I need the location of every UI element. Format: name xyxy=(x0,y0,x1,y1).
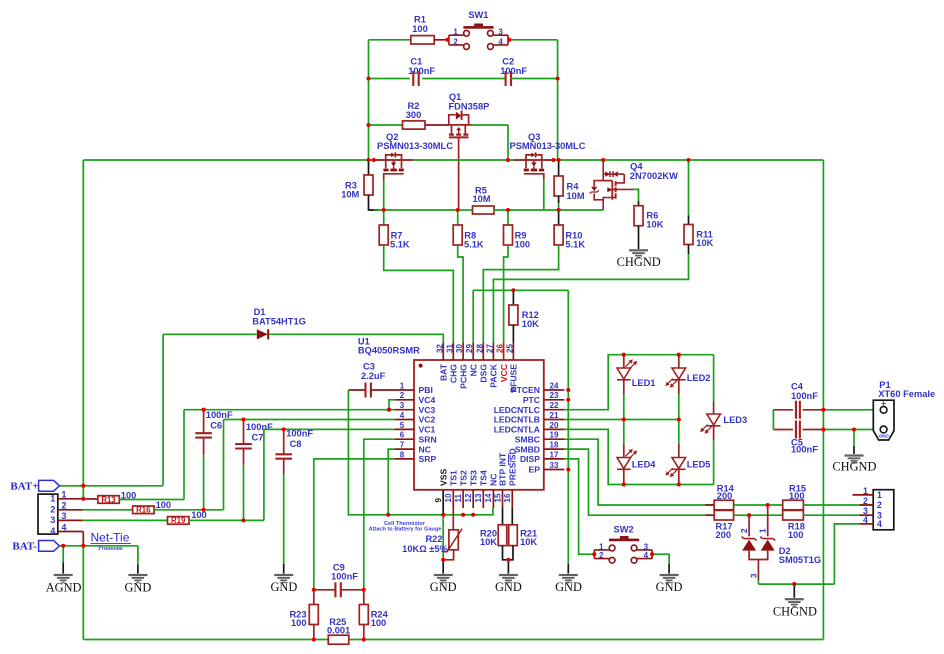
svg-text:32: 32 xyxy=(435,344,444,353)
junction pin23 net xyxy=(566,398,570,402)
svg-text:11: 11 xyxy=(454,493,463,502)
resistor R3 xyxy=(364,175,373,195)
pin 29 stub U1 top xyxy=(472,343,474,360)
junction row Q4 xyxy=(601,158,605,162)
wire SW2 to GND xyxy=(652,554,669,564)
svg-text:SMBD: SMBD xyxy=(515,444,540,454)
P1 gnd pad xyxy=(880,426,887,433)
svg-text:SW2: SW2 xyxy=(614,524,634,534)
svg-text:33: 33 xyxy=(550,461,559,470)
svg-text:XT60 Female: XT60 Female xyxy=(878,389,935,399)
svg-text:18: 18 xyxy=(550,441,559,450)
resistor R15 xyxy=(783,500,804,510)
wire R24 bottom xyxy=(363,625,365,640)
svg-text:25: 25 xyxy=(505,344,514,353)
junction row C2 branch xyxy=(557,158,561,162)
wire R10 top xyxy=(558,210,560,225)
pin 20 stub U1 xyxy=(544,428,565,430)
junction C9 right xyxy=(362,588,366,592)
wire Q4 source to row xyxy=(602,209,604,210)
resistor R5 xyxy=(473,206,495,214)
svg-text:200: 200 xyxy=(716,530,732,540)
wire R7 top xyxy=(383,210,385,225)
ground CHGND P1 xyxy=(845,454,864,463)
svg-text:2.2uF: 2.2uF xyxy=(361,371,386,381)
wire R23 bottom xyxy=(313,625,315,640)
pin 28 stub U1 top xyxy=(482,343,484,360)
wire LED4 top xyxy=(623,420,625,445)
wire BAT- row xyxy=(60,545,138,547)
junction TS3 row xyxy=(471,513,475,517)
resistor R2 xyxy=(403,121,426,129)
junction SW2 left xyxy=(592,552,596,556)
diode D1 xyxy=(257,329,268,339)
LED LED5 xyxy=(672,458,686,470)
svg-text:100nF: 100nF xyxy=(331,572,358,582)
svg-text:VC1: VC1 xyxy=(419,425,436,435)
wire LED2 to mid xyxy=(678,394,680,420)
wire C6 bottom lead xyxy=(203,438,205,455)
resistor R6 xyxy=(634,206,643,226)
svg-text:3: 3 xyxy=(400,401,405,410)
wire R14 to R15 xyxy=(734,504,783,506)
svg-text:10KΩ ±5%: 10KΩ ±5% xyxy=(402,544,448,554)
svg-text:1: 1 xyxy=(599,542,604,551)
svg-text:1: 1 xyxy=(863,486,868,496)
op-amp U1 body xyxy=(414,360,544,490)
junction SW2 right xyxy=(650,552,654,556)
capacitor C1 xyxy=(413,71,418,86)
svg-text:14: 14 xyxy=(484,493,493,502)
wire C8 to GND xyxy=(283,474,285,564)
junction R23 rail xyxy=(312,637,316,641)
svg-text:100nF: 100nF xyxy=(791,445,818,455)
wire BATP riser xyxy=(162,334,164,485)
junction pin33 net xyxy=(566,467,570,471)
junction LED2 top xyxy=(677,353,681,357)
svg-text:100nF: 100nF xyxy=(500,66,527,76)
svg-text:3: 3 xyxy=(749,573,758,578)
svg-text:VCC: VCC xyxy=(499,364,509,382)
resistor R19 xyxy=(168,517,190,525)
pin 2 stub U1 xyxy=(395,399,414,401)
svg-text:SW1: SW1 xyxy=(468,10,488,20)
svg-text:Net-Tie: Net-Tie xyxy=(91,531,130,545)
junction C1 row left xyxy=(366,76,370,80)
svg-text:GND: GND xyxy=(430,580,457,594)
svg-text:VC4: VC4 xyxy=(419,395,436,405)
wire R22 GND black xyxy=(442,560,444,574)
flag BAT- xyxy=(39,541,60,552)
wire R4 bottom green xyxy=(558,203,560,210)
wire BTP to R20 xyxy=(502,508,504,525)
wire Q2 pins row xyxy=(375,159,414,161)
U1 pin1 mark xyxy=(419,364,423,368)
capacitor C5 xyxy=(796,421,800,439)
wire R7 to pin31 xyxy=(384,245,454,343)
svg-text:4: 4 xyxy=(62,522,67,532)
junction LED mid left xyxy=(622,417,626,421)
wire BATminus left vertical xyxy=(82,546,84,640)
svg-text:AGND: AGND xyxy=(46,580,82,594)
junction NC7 on VSS row xyxy=(386,513,390,517)
pin 22 stub U1 xyxy=(544,409,565,411)
junction pin24 net xyxy=(566,388,570,392)
resistor R25 shunt xyxy=(328,635,349,644)
junction SW1 right xyxy=(507,38,511,42)
pin 2 stub P2 xyxy=(860,504,874,506)
svg-text:R22: R22 xyxy=(425,534,442,544)
wire row210 a xyxy=(384,209,458,211)
svg-text:TS1: TS1 xyxy=(449,470,459,486)
capacitor C7 xyxy=(235,444,252,448)
wire LED3 anode xyxy=(713,402,715,414)
junction C6 top xyxy=(202,408,206,412)
wire C3 down to VSS row xyxy=(348,390,388,515)
wire SMBD to R17 xyxy=(564,449,714,515)
wire LEDC xyxy=(564,355,713,410)
wire R12 to pin25 xyxy=(512,325,514,343)
wire LED5 top xyxy=(678,420,680,445)
wire C9 left lead xyxy=(314,589,335,591)
wire R8 top xyxy=(457,210,459,225)
svg-text:2: 2 xyxy=(863,496,868,506)
svg-text:28: 28 xyxy=(475,344,484,353)
wire D1 cathode to pin32 xyxy=(270,334,444,342)
svg-text:10K: 10K xyxy=(480,537,497,547)
junction LED4 bot xyxy=(622,482,626,486)
svg-text:LED4: LED4 xyxy=(632,460,657,470)
svg-text:TS2: TS2 xyxy=(458,470,468,486)
wire EP to GND black xyxy=(567,564,569,574)
resistor R21 xyxy=(509,525,518,546)
wire D2 anode U xyxy=(749,551,768,560)
svg-text:BQ4050RSMR: BQ4050RSMR xyxy=(358,345,420,355)
connector battery J1 body xyxy=(38,494,58,534)
svg-text:LED1: LED1 xyxy=(632,378,656,388)
transistor Q2 xyxy=(383,152,403,179)
resistor R9 xyxy=(504,225,513,245)
pin 3 stub J1 xyxy=(58,519,84,521)
wire R11 top black xyxy=(688,216,690,225)
wire Q1 to Q3 row xyxy=(507,125,509,160)
wire R16 right xyxy=(154,509,223,511)
resistor R18 xyxy=(783,510,804,520)
svg-text:VSS: VSS xyxy=(438,469,448,486)
wire bottom rail xyxy=(83,639,823,641)
ground GND NetTie xyxy=(128,574,147,583)
svg-text:24: 24 xyxy=(550,381,559,390)
wire main left vertical xyxy=(368,40,370,160)
svg-text:2: 2 xyxy=(877,500,882,510)
ground GND EP xyxy=(559,574,578,583)
svg-text:SRP: SRP xyxy=(419,454,437,464)
svg-text:1: 1 xyxy=(50,493,55,503)
svg-text:100: 100 xyxy=(789,491,805,501)
svg-text:NC: NC xyxy=(419,444,431,454)
junction D2 pin1 xyxy=(766,503,770,507)
pin 30 stub U1 top xyxy=(462,343,464,360)
wire D2 pin1 lead xyxy=(767,505,769,536)
svg-text:17: 17 xyxy=(550,450,559,459)
svg-text:SRN: SRN xyxy=(419,434,437,444)
resistor R10 xyxy=(554,225,563,245)
pin 25 stub U1 top xyxy=(512,343,514,360)
wire R1 to SW1 xyxy=(434,39,447,41)
wire R8 to pin30 xyxy=(458,245,463,343)
svg-text:22: 22 xyxy=(550,401,559,410)
junction P1 gnd xyxy=(852,427,856,431)
junction C4 pack xyxy=(821,408,825,412)
svg-text:GND: GND xyxy=(270,580,297,594)
svg-text:5.1K: 5.1K xyxy=(464,240,484,250)
wire R16 riser xyxy=(223,420,225,510)
resistor R24 xyxy=(359,605,368,625)
pin 21 stub U1 xyxy=(544,419,565,421)
lead R17 left xyxy=(706,514,715,516)
svg-text:PTC: PTC xyxy=(523,395,540,405)
svg-text:C1: C1 xyxy=(410,56,422,66)
junction LED5 bot xyxy=(677,482,681,486)
junction node R7 xyxy=(382,208,386,212)
wire NetTie GND xyxy=(137,546,139,565)
pin 1 stub J1 xyxy=(58,498,84,500)
wire LED4 anode xyxy=(623,444,625,458)
pin 5 stub U1 xyxy=(395,428,414,430)
capacitor C8 xyxy=(275,454,292,458)
junction row R11 xyxy=(686,158,690,162)
wire C7 bottom lead xyxy=(243,449,245,465)
svg-text:2: 2 xyxy=(400,391,405,400)
wire D1 anode row xyxy=(163,333,257,335)
wire LED1 anode xyxy=(623,355,625,368)
svg-text:BAT54HT1G: BAT54HT1G xyxy=(252,316,306,326)
pin 23 stub U1 xyxy=(544,399,565,401)
switch SW1 xyxy=(449,24,508,50)
svg-text:5: 5 xyxy=(400,421,405,430)
wire rail to pin1 xyxy=(82,486,84,499)
wire SRN xyxy=(364,439,395,590)
wire C9 right lead xyxy=(341,589,364,591)
svg-text:4: 4 xyxy=(644,551,649,560)
wire LEDB xyxy=(564,419,678,421)
wire VC1 row xyxy=(264,428,395,430)
junction SW1 left xyxy=(445,38,449,42)
wire pin3 to R19 xyxy=(83,519,167,521)
svg-text:15: 15 xyxy=(493,493,502,502)
wire D2 pin2 lead xyxy=(748,515,750,536)
LED LED2 xyxy=(672,368,686,380)
svg-text:2: 2 xyxy=(740,528,749,533)
wire R6 top black xyxy=(638,201,640,206)
svg-text:GND: GND xyxy=(878,433,889,438)
svg-text:1: 1 xyxy=(400,381,405,390)
wire R23 top xyxy=(313,590,315,605)
resistor R20 xyxy=(498,525,507,546)
svg-text:NC: NC xyxy=(468,364,478,376)
svg-text:VC2: VC2 xyxy=(419,415,436,425)
pin 1 stub U1 xyxy=(395,389,414,391)
wire R19 riser xyxy=(263,429,265,520)
flag BAT+ xyxy=(39,480,60,491)
svg-text:7: 7 xyxy=(400,441,405,450)
svg-text:GND: GND xyxy=(656,580,683,594)
svg-text:LEDCNTLB: LEDCNTLB xyxy=(494,415,540,425)
junction BATP rail xyxy=(81,484,85,488)
wire R4 bottom xyxy=(558,196,560,203)
wire C8 bottom lead xyxy=(283,459,285,475)
svg-text:5.1K: 5.1K xyxy=(565,240,585,250)
svg-text:C2: C2 xyxy=(502,56,514,66)
wire pin29 drop xyxy=(472,290,474,342)
wire R3 bottom xyxy=(369,195,380,210)
svg-text:4: 4 xyxy=(863,515,868,525)
svg-text:PACK: PACK xyxy=(489,363,499,388)
ground CHGND D2 xyxy=(785,598,804,607)
wire LED2 anode xyxy=(678,355,680,368)
wire R9 to pin26 xyxy=(504,245,508,343)
svg-text:BAT: BAT xyxy=(439,363,449,381)
wire BAT+ to riser xyxy=(60,485,164,487)
svg-text:4: 4 xyxy=(50,526,55,536)
wire AGND xyxy=(62,546,64,563)
capacitor C6 xyxy=(195,433,212,437)
svg-text:2: 2 xyxy=(50,504,55,514)
svg-text:FDN358P: FDN358P xyxy=(449,101,490,111)
ground GND R20R21 xyxy=(499,574,518,583)
pin 33 stub U1 xyxy=(544,469,565,471)
svg-text:GND: GND xyxy=(495,580,522,594)
svg-text:BAT+: BAT+ xyxy=(10,481,38,493)
svg-text:LED3: LED3 xyxy=(723,415,747,425)
ground GND R22 xyxy=(434,574,453,583)
lead R13 left xyxy=(83,498,98,500)
wire LED3 to bottom xyxy=(713,440,715,485)
transistor Q1 xyxy=(446,111,472,138)
wire R21 bottom xyxy=(508,546,513,560)
svg-text:LEDCNTLA: LEDCNTLA xyxy=(494,425,540,435)
junction R12 top xyxy=(511,288,515,292)
svg-text:23: 23 xyxy=(550,391,559,400)
ground GND C8 xyxy=(274,574,293,583)
junction node R8 xyxy=(456,208,460,212)
pin 16 stub U1 bottom xyxy=(511,490,513,508)
wire Q2-Q3 row xyxy=(413,159,514,161)
wire C6 top lead xyxy=(203,410,205,434)
svg-text:100: 100 xyxy=(371,618,387,628)
wire C2 to right vertical xyxy=(511,78,558,80)
wire Q4 drain xyxy=(633,189,639,201)
svg-text:1: 1 xyxy=(877,490,882,500)
svg-text:26: 26 xyxy=(496,344,505,353)
pin 3 stub U1 xyxy=(395,409,414,411)
junction BAT- rail xyxy=(81,544,85,548)
svg-text:4: 4 xyxy=(498,37,503,46)
wire R12 top xyxy=(512,290,514,305)
pin 13 stub U1 bottom xyxy=(482,490,484,508)
wire VSS to GND xyxy=(442,515,444,560)
junction C7 top xyxy=(241,417,245,421)
resistor R4 xyxy=(554,176,563,196)
wire pin4 down xyxy=(82,532,84,546)
junction row Q2 gate xyxy=(372,158,376,162)
wire right vertical to C2 row xyxy=(557,40,559,160)
svg-text:10M: 10M xyxy=(341,190,359,200)
junction row Q3 left xyxy=(506,158,510,162)
svg-text:3: 3 xyxy=(50,515,55,525)
wire VC2 row xyxy=(224,419,395,421)
svg-text:100: 100 xyxy=(788,530,804,540)
pin 4 stub P2 xyxy=(860,523,874,525)
wire R20 bottom xyxy=(503,546,509,560)
wire C6 to R16 row xyxy=(203,455,205,510)
capacitor C4 xyxy=(796,401,800,419)
wire CHGND row xyxy=(758,583,834,585)
pin 19 stub U1 xyxy=(544,438,565,440)
wire row210 c xyxy=(494,209,603,211)
resistor R12 xyxy=(509,305,518,325)
svg-text:2N7002KW: 2N7002KW xyxy=(630,171,678,181)
pin 14 stub U1 bottom xyxy=(492,490,494,508)
wire R2 to Q1 gatebar xyxy=(425,124,449,126)
wire SRP xyxy=(314,459,395,590)
wire C4 to P1 plus xyxy=(823,409,877,411)
wire P1 CHGND black xyxy=(853,446,855,454)
junction R20 R21 GND xyxy=(506,558,510,562)
svg-text:C7: C7 xyxy=(252,432,264,442)
svg-text:6: 6 xyxy=(400,431,405,440)
wire R11 to pin27 xyxy=(493,254,688,343)
svg-text:PFUSE: PFUSE xyxy=(509,364,519,393)
connector P2 body xyxy=(873,490,894,530)
svg-text:1: 1 xyxy=(759,528,768,533)
switch SW2 xyxy=(594,536,652,563)
junction C7 bottom xyxy=(241,518,245,522)
svg-text:16: 16 xyxy=(503,493,512,502)
wire NetTie GND black xyxy=(137,565,139,574)
resistor R11 xyxy=(684,225,693,245)
junction D2 pin2 xyxy=(747,513,751,517)
svg-text:20: 20 xyxy=(550,421,559,430)
junction node R10 xyxy=(557,208,561,212)
wire R2 row left xyxy=(369,124,403,126)
svg-text:GND: GND xyxy=(555,580,582,594)
svg-text:100: 100 xyxy=(291,618,307,628)
wire LED4 cathode xyxy=(623,470,625,485)
wire C8 top lead xyxy=(283,429,285,454)
wire LED3 cathode xyxy=(713,426,715,440)
pin 7 stub U1 xyxy=(395,448,414,450)
wire R24 top xyxy=(363,590,365,605)
wire C4C5 bracket xyxy=(772,410,774,430)
LED LED3 xyxy=(707,414,721,426)
transistor Q4 xyxy=(590,160,633,209)
junction VSS row xyxy=(441,513,445,517)
pin 26 stub U1 top xyxy=(503,343,505,360)
wire VC4 jog xyxy=(389,400,395,410)
svg-text:3: 3 xyxy=(62,511,67,521)
svg-text:4: 4 xyxy=(877,519,882,529)
wire C5 right xyxy=(803,429,824,431)
junction VC4-VC3 xyxy=(387,408,391,412)
capacitor C3 xyxy=(366,383,371,398)
junction C8 top xyxy=(282,427,286,431)
junction CHGND D2 xyxy=(792,582,796,586)
junction C5 gnd xyxy=(821,427,825,431)
svg-text:DISP: DISP xyxy=(520,454,540,464)
pin 12 stub U1 bottom xyxy=(472,490,474,508)
resistor R1 xyxy=(411,36,434,44)
